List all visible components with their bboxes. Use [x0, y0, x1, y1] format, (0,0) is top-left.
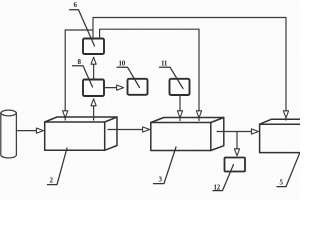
label 2 leader	[48, 148, 68, 185]
svg-text:2: 2	[50, 177, 54, 185]
3D box 2 (first vessel)	[45, 117, 117, 150]
svg-text:11: 11	[161, 60, 168, 68]
wire: box11 down into box 3 top	[179, 95, 181, 121]
label 3 leader	[154, 147, 177, 184]
wire: box 2 to box 3 with right arrowhead	[108, 129, 143, 131]
faint scan noise overlay (decorative)	[0, 0, 1, 1]
svg-text:5: 5	[280, 179, 284, 187]
wire: tank 1 to box 2 with right arrowhead	[16, 130, 36, 132]
open arrowhead down into box 3	[196, 111, 201, 118]
svg-text:6: 6	[74, 1, 78, 9]
cylinder tank 1 (left, clipped)	[1, 110, 17, 158]
3D box 3 (second vessel)	[151, 118, 224, 151]
wire: box8 to box10 with right arrowhead	[104, 87, 117, 89]
svg-text:3: 3	[159, 176, 163, 184]
box U8	[83, 80, 104, 97]
box U10	[128, 79, 148, 95]
box U12	[225, 158, 246, 172]
wire: box2 up to box8 with up arrowhead	[93, 106, 95, 120]
svg-text:10: 10	[119, 60, 126, 68]
label 10 leader	[117, 67, 140, 87]
wire: box8 up to box6 with up arrowhead	[93, 65, 95, 80]
3D box 5 (third vessel, clipped at right)	[260, 119, 301, 152]
wire: junction drop to box 12 with down arrowhead	[236, 132, 238, 149]
svg-text:8: 8	[78, 58, 82, 66]
wire: mid line drop into box 3 top	[198, 29, 200, 120]
svg-text:12: 12	[214, 184, 221, 192]
wire: box6 top second lead to mid line	[100, 29, 199, 38]
open arrowhead down into box 3 from box 11	[177, 111, 182, 118]
open arrowhead down into box 5	[283, 111, 288, 118]
wire: branch left from vertical to x65	[65, 29, 93, 31]
box U11	[170, 79, 190, 95]
open arrowhead down into box 2	[63, 111, 68, 118]
wire: long top line drop into box 5	[285, 18, 287, 121]
label 6 leader	[70, 10, 95, 46]
wire: box 3 to box 5 with right arrowhead	[217, 131, 251, 133]
wire: box6 top to long top line	[93, 18, 286, 39]
label 12 leader	[213, 165, 234, 191]
label 5 leader	[277, 154, 300, 187]
wire: drop x65 into box 2 top	[64, 30, 66, 120]
label 11 leader	[160, 67, 184, 88]
box U6 (controller, top)	[83, 39, 104, 55]
label 8 leader	[73, 66, 93, 87]
